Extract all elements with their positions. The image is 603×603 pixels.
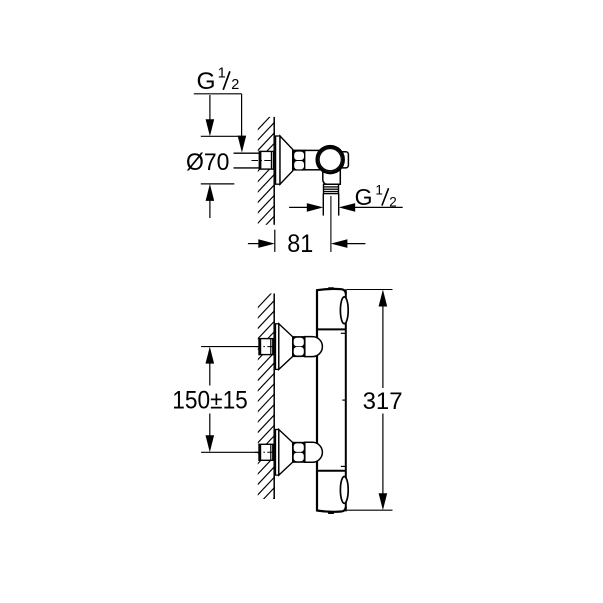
escutcheon cone bbox=[280, 136, 293, 184]
union nut (knurled) bbox=[293, 150, 306, 171]
dimension 150 plus-minus 15 bbox=[201, 347, 259, 453]
escutcheon cone bbox=[279, 324, 293, 370]
hex wall fitting bbox=[259, 151, 273, 169]
dimension 317 bbox=[347, 290, 393, 511]
label G 1/2 top bbox=[197, 66, 240, 95]
hose connector ribs bbox=[324, 184, 339, 193]
centre line bbox=[255, 346, 274, 348]
wall section (top figure) bbox=[252, 106, 280, 271]
top cap tick bbox=[341, 332, 345, 334]
escutcheon flange face bbox=[276, 430, 279, 476]
valve body neck bbox=[305, 150, 320, 169]
top cap separation line bbox=[317, 328, 346, 330]
leader line for top G 1/2 bbox=[194, 94, 246, 153]
right cap of valve bbox=[339, 152, 348, 168]
svg-text:G: G bbox=[355, 184, 373, 210]
hex wall fitting bbox=[259, 339, 273, 355]
mid body tick bbox=[342, 399, 346, 401]
svg-text:G: G bbox=[197, 68, 216, 95]
svg-text:Ø70: Ø70 bbox=[186, 149, 229, 176]
inlet pipe through wall bbox=[234, 153, 260, 168]
bottom cap capsule highlight bbox=[340, 477, 348, 504]
centre line bbox=[255, 451, 274, 453]
check valve housing dome bbox=[305, 442, 323, 462]
outlet elbow below valve bbox=[323, 160, 341, 184]
dimension lines D70 bbox=[201, 136, 244, 184]
svg-text:1: 1 bbox=[218, 66, 226, 82]
shower hose outlet bbox=[323, 194, 338, 216]
label G 1/2 right bbox=[355, 182, 397, 209]
hose axis / extension line bbox=[330, 196, 332, 252]
check valve housing dome bbox=[305, 337, 323, 357]
top button nub bbox=[328, 287, 334, 289]
wall section (bottom figure) bbox=[252, 284, 280, 543]
pipe centre line bbox=[252, 160, 274, 162]
hex wall fitting bbox=[259, 444, 273, 460]
bottom cap tick bbox=[341, 465, 345, 467]
svg-text:150±15: 150±15 bbox=[172, 388, 248, 415]
mixer body bbox=[317, 289, 346, 512]
D70 arrows bbox=[206, 95, 215, 218]
svg-text:2: 2 bbox=[231, 77, 239, 93]
svg-text:1: 1 bbox=[375, 182, 383, 197]
svg-text:317: 317 bbox=[363, 388, 403, 415]
svg-text:81: 81 bbox=[287, 230, 313, 258]
union nut (knurled) bbox=[293, 442, 305, 463]
escutcheon flange face bbox=[276, 136, 280, 184]
top cap capsule highlight bbox=[340, 297, 348, 324]
dimension 81 bbox=[248, 230, 366, 252]
bottom cap separation line bbox=[317, 470, 346, 472]
dimension G 1/2 hose arrows bbox=[289, 203, 403, 212]
union nut (knurled) bbox=[293, 336, 305, 357]
valve body circle bbox=[317, 146, 343, 172]
escutcheon flange face bbox=[276, 324, 279, 370]
bottom button nub bbox=[328, 512, 334, 514]
escutcheon cone bbox=[279, 430, 293, 476]
